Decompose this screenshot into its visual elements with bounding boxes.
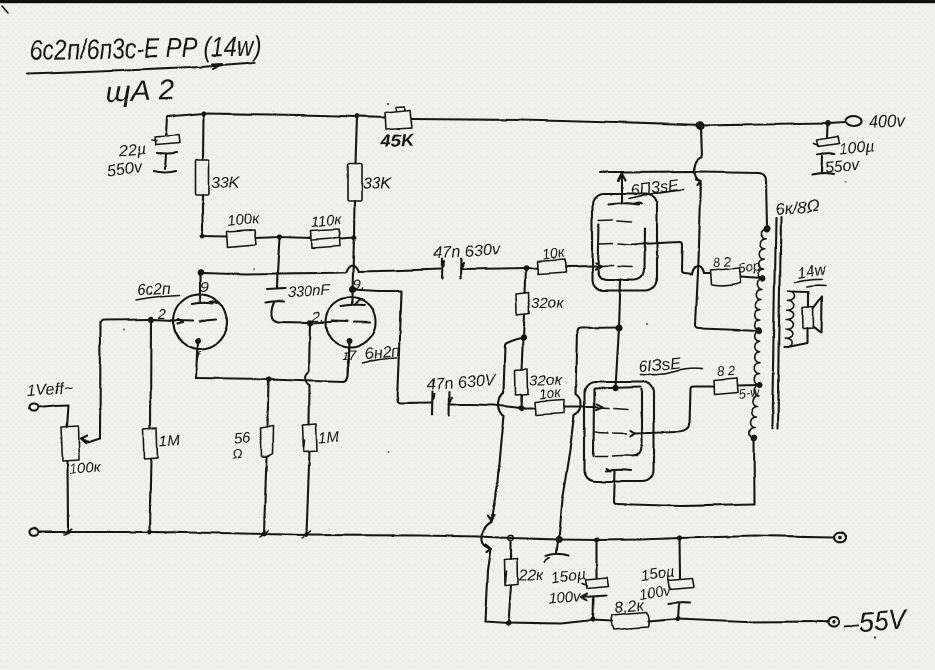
svg-text:2: 2	[157, 305, 167, 322]
title underline	[26, 62, 254, 73]
resistor 1M (grid V1)	[143, 319, 158, 531]
svg-text:1M: 1M	[317, 428, 339, 446]
wire secondary to speaker	[784, 291, 808, 347]
svg-text:ɪ7: ɪ7	[342, 346, 357, 362]
wire screen V3 to 82ohm (hops over B+ line)	[631, 241, 709, 274]
resistor 22K (bias divider)	[504, 540, 518, 622]
svg-text:ɰА 2: ɰА 2	[105, 74, 174, 108]
node OPT tap lower	[757, 382, 763, 388]
node upper grid junction	[523, 264, 529, 270]
wire cathode link to V4	[615, 327, 619, 387]
svg-text:1ок: 1ок	[537, 384, 562, 402]
capacitor 47n 630V (upper coupling)	[442, 258, 526, 279]
node divider left	[200, 233, 205, 238]
svg-text:56: 56	[232, 428, 251, 447]
node cathode 56ohm	[265, 376, 270, 381]
wire B+ to OPT center tap (hops over anode wire)	[694, 127, 758, 330]
capacitor 330nF	[265, 288, 308, 323]
resistor 56 ohm (cathode)	[260, 379, 273, 533]
speaker 14W	[802, 297, 822, 333]
node -55V 22K	[505, 619, 510, 624]
terminal ground right	[834, 532, 846, 542]
node 33K/110K junction right	[351, 235, 356, 240]
paper specks	[386, 102, 388, 104]
svg-text:400v: 400v	[868, 110, 907, 130]
svg-text:330nF: 330nF	[287, 281, 331, 300]
terminal ground left	[29, 527, 38, 535]
svg-text:2.: 2.	[310, 308, 324, 325]
svg-text:–55V: –55V	[841, 604, 910, 639]
stub chassis mark	[545, 541, 569, 563]
svg-text:110к: 110к	[309, 210, 343, 230]
node ground 56ohm	[261, 531, 266, 536]
wire anode V4 to OPT bottom	[752, 438, 755, 504]
node B+ filter cap	[824, 120, 830, 126]
resistor 320K (lower bias)	[515, 337, 528, 408]
node lower grid junction	[518, 405, 524, 411]
transformer OPT primary winding	[749, 229, 766, 438]
wire cathode V3 to ground (hops over lower grid wire)	[559, 280, 620, 539]
wire bias feed down to -55V	[481, 337, 523, 621]
title 6s2p/6p3s-E PP (14W)	[29, 29, 262, 65]
resistor 100K (divider)	[202, 229, 279, 247]
wire input to pot	[38, 405, 68, 427]
node anode V1	[197, 268, 204, 275]
resistor 320K (upper bias)	[516, 267, 529, 337]
wire B+ rail	[166, 113, 845, 125]
svg-text:100к: 100к	[225, 209, 260, 229]
node ground pot	[65, 529, 70, 534]
node B+ left	[200, 110, 205, 115]
terminal input	[29, 403, 38, 410]
svg-text:8 2: 8 2	[716, 362, 736, 378]
node bias mid	[520, 333, 526, 339]
resistor 33K (first stage, left)	[195, 113, 209, 235]
node OPT primary bottom	[750, 434, 757, 441]
wire grid V2 into tube	[310, 322, 331, 323]
node OPT tap upper	[759, 274, 765, 280]
svg-text:9: 9	[200, 278, 209, 295]
resistor 8.2K (bias feed, in rail)	[611, 612, 648, 630]
capacitor 150u 100V (right)	[668, 537, 694, 619]
node grid V1	[147, 316, 153, 322]
svg-text:33K: 33K	[362, 175, 392, 192]
resistor 82 (upper screen)	[710, 267, 741, 285]
svg-text:22к: 22к	[517, 567, 545, 584]
node -55V 150u B	[675, 616, 680, 621]
svg-text:6с2п/6п3с-Е РР (14w): 6с2п/6п3с-Е РР (14w)	[29, 29, 262, 65]
node grid V2	[306, 319, 312, 325]
node cathode V4	[611, 384, 617, 390]
resistor 82 (lower screen)	[713, 378, 738, 394]
terminal 400V	[845, 116, 861, 126]
potentiometer 100K	[61, 319, 151, 531]
resistor 10K (upper grid stopper)	[526, 259, 602, 274]
transformer core	[772, 217, 781, 428]
tube V1 6s2p triode	[174, 272, 227, 378]
capacitor 150u 100V (left)	[581, 539, 609, 619]
node divider mid	[276, 233, 281, 238]
node ground 150u B	[676, 534, 681, 539]
terminal -55V	[828, 617, 839, 626]
capacitor 100u 550V (B+ filter)	[812, 125, 839, 174]
svg-text:10к: 10к	[541, 244, 566, 262]
wire anode V1 to coupling cap (y272 line)	[203, 265, 440, 274]
node ground 150u A	[593, 536, 598, 541]
node OPT primary top	[762, 225, 769, 232]
svg-text:1M: 1M	[158, 431, 180, 449]
wire -55V rail	[485, 619, 828, 624]
svg-text:Ω: Ω	[231, 445, 243, 461]
svg-text:100v: 100v	[548, 588, 583, 607]
tube V4 6P3S-E (lower output, mirrored)	[584, 381, 754, 505]
resistor 45K (B+ dropper, in rail)	[384, 106, 412, 129]
transformer secondary winding	[784, 291, 795, 347]
wire ground rail	[38, 531, 833, 539]
svg-text:33K: 33K	[211, 174, 241, 191]
svg-text:100µ: 100µ	[837, 137, 874, 157]
node OPT center tap	[755, 327, 762, 334]
svg-text:32ок: 32ок	[531, 294, 564, 311]
resistor 1M (grid V2)	[302, 323, 317, 533]
node -55V 150u A	[589, 616, 594, 621]
node ground 1M V1	[147, 529, 152, 534]
node anode V2	[348, 286, 355, 293]
capacitor 47n 630V (lower coupling)	[431, 391, 521, 416]
tube V2 6n2p triode	[325, 290, 375, 376]
wire anode V3 to OPT top	[600, 171, 766, 228]
node ground 1M V2	[303, 532, 308, 537]
node B+ 33K right	[354, 114, 359, 119]
wire divider junction down to 330nF	[277, 236, 280, 287]
resistor 10K (lower grid stopper)	[521, 400, 602, 415]
resistor 33K (second, right)	[347, 116, 361, 237]
wire cathode line V1-V2	[196, 342, 349, 381]
node ground 22K	[507, 534, 513, 539]
capacitor 22u 550V	[151, 116, 179, 172]
svg-text:8 2: 8 2	[712, 253, 732, 269]
tube V3 6P3S-E (upper output)	[592, 173, 656, 290]
svg-text:45K: 45K	[379, 129, 416, 151]
wire screen V4 to 82ohm	[629, 386, 713, 436]
wire anode V2 to lower coupling cap	[352, 290, 431, 403]
node cathode junction V3/V4	[614, 323, 621, 330]
resistor 110K (divider)	[279, 229, 354, 248]
wire grid V1	[151, 319, 184, 324]
svg-text:100к: 100к	[68, 458, 102, 477]
scanner edge band top	[0, 0, 935, 3]
node B+ output	[695, 120, 704, 129]
node ground cathodes	[555, 535, 562, 542]
wire anode V2 down-feed	[352, 237, 354, 290]
svg-text:22µ: 22µ	[116, 140, 146, 160]
svg-text:ƒ: ƒ	[194, 347, 202, 363]
